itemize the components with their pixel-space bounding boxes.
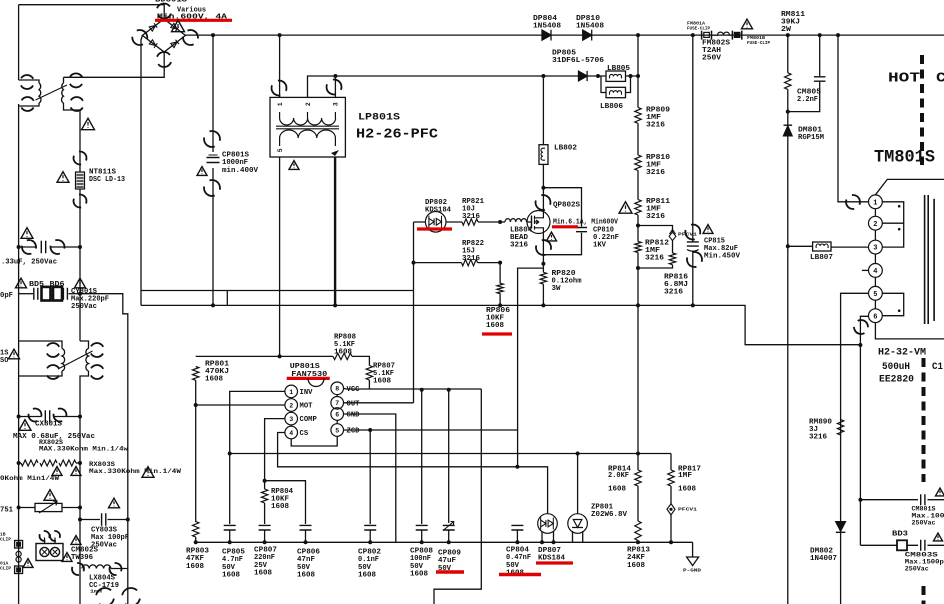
svg-text:1608: 1608 <box>254 570 272 578</box>
junction railB cp815 <box>691 303 695 307</box>
wire x860 bd3 row <box>860 544 944 546</box>
loop mark LP pin3 <box>325 78 342 95</box>
wire CS to DP807 <box>518 467 548 514</box>
svg-text:31DF6L-5706: 31DF6L-5706 <box>552 57 604 65</box>
warning triangle BD5 left <box>16 278 27 288</box>
svg-text:OUT: OUT <box>347 400 361 408</box>
junction rp822 left <box>412 261 416 265</box>
svg-text:8: 8 <box>335 386 339 393</box>
label RP809 1MF 3216 <box>646 107 670 130</box>
svg-text:QP802S: QP802S <box>553 202 581 210</box>
label RM890 3J 3216 <box>809 419 832 442</box>
junction x860 y345 <box>858 343 862 347</box>
loop mark CP801S top <box>202 129 223 150</box>
loop mark tm pin1 <box>845 194 861 210</box>
wire rx802s row <box>19 462 21 464</box>
fuse clip FM801A (left rail) <box>15 566 23 574</box>
svg-text:1N5408: 1N5408 <box>576 22 604 30</box>
wire lb804 to gate <box>527 221 532 223</box>
svg-text:2: 2 <box>305 102 312 106</box>
label RP812 1MF 3216 <box>645 240 669 263</box>
resistor RP804 <box>261 489 267 503</box>
loop mark lx804s left <box>71 562 85 576</box>
wire bd row left <box>19 293 33 295</box>
loop mark cp815 bottom <box>685 250 703 268</box>
label CP801S 1000nF min.400V <box>222 152 259 175</box>
svg-text:3216: 3216 <box>645 255 664 263</box>
svg-text:5: 5 <box>277 148 284 152</box>
label clip 01A <box>0 561 11 572</box>
resistor RP808 <box>333 353 352 359</box>
svg-text:3216: 3216 <box>664 289 683 297</box>
component CM802S TW396 <box>36 538 63 561</box>
capacitor CP809 <box>443 525 455 530</box>
svg-text:4: 4 <box>873 268 877 276</box>
capacitor CP806 <box>300 525 312 530</box>
wire varistor row <box>19 507 80 509</box>
warning triangle bridge <box>172 20 185 31</box>
label CM802S TW396 <box>71 547 98 562</box>
capacitor CP804 <box>511 525 523 530</box>
junction bd row right <box>78 292 82 296</box>
wire CP804 bottom <box>516 530 518 542</box>
junction comp node <box>263 479 267 483</box>
svg-text:HOT: HOT <box>888 71 920 87</box>
loop mark choke2 tr <box>87 340 106 359</box>
loop mark choke1 br <box>67 94 86 113</box>
varistor RV (751) <box>35 501 62 513</box>
junction bus35 x788 <box>786 33 790 37</box>
svg-text:LB807: LB807 <box>810 254 833 262</box>
op-amp pin 1 circle <box>285 385 313 398</box>
capacitor CY803S <box>102 513 106 526</box>
hot-cold divider upper <box>920 55 924 165</box>
svg-text:1608: 1608 <box>271 503 289 511</box>
wire left rail x18 <box>18 5 20 80</box>
svg-text:1608: 1608 <box>297 572 315 580</box>
TM801S pin 2 circle <box>869 216 883 230</box>
junction x638 bus bottom <box>636 540 640 544</box>
LP801S pin numbers <box>277 102 340 152</box>
wire dp807 legs <box>542 532 554 543</box>
loop mark xcap right <box>49 238 67 256</box>
warning triangle rx b <box>71 467 81 476</box>
junction cx left <box>17 415 21 419</box>
wire bd row right <box>69 293 81 295</box>
svg-text:3216: 3216 <box>510 242 528 250</box>
wire ZCD line <box>344 429 518 431</box>
junction inv-zp801 <box>576 452 580 456</box>
svg-text:3216: 3216 <box>646 169 665 177</box>
svg-text:1: 1 <box>277 102 284 106</box>
loop mark choke1 bl <box>18 94 37 113</box>
label CP808 100nF 50V 1608 <box>410 548 433 579</box>
wire cm801s row <box>860 499 944 501</box>
label CP804 0.47nF 50V 1608 <box>506 547 531 578</box>
loop mark choke1 tr <box>66 71 85 90</box>
wire rail B y305.4 <box>141 304 693 306</box>
wire x638 column top <box>637 35 639 107</box>
wire rp822 row <box>414 262 501 264</box>
svg-text:Max.330Kohm Min.1/4W: Max.330Kohm Min.1/4W <box>89 468 181 475</box>
wire rp804 column <box>264 481 266 524</box>
resistor RP801 <box>193 367 199 381</box>
wire x788 top <box>787 35 789 73</box>
op-amp pin 3 circle <box>285 412 318 425</box>
svg-text:CLIP: CLIP <box>0 565 11 571</box>
svg-text:1608: 1608 <box>627 562 645 570</box>
label RP807 5.1KF 1608 <box>373 363 395 386</box>
svg-text:250Vac: 250Vac <box>912 520 936 528</box>
loop arc under FAN7530 <box>308 379 324 387</box>
svg-text:SO: SO <box>0 357 8 365</box>
transformer TM801S outline <box>875 179 944 194</box>
wire rx802s right <box>76 462 80 464</box>
wire LP pin5 down <box>279 157 281 356</box>
svg-text:500uH: 500uH <box>882 361 910 373</box>
resistor RX802S b <box>40 460 57 466</box>
label CP802 0.1nF 50V 1608 <box>358 549 381 580</box>
resistor RP810 <box>635 155 641 171</box>
op-amp pin 5 circle <box>331 424 360 437</box>
junction varistor right <box>78 506 82 510</box>
loop mark LP pin1 <box>270 79 287 96</box>
resistor RP806 <box>497 283 503 294</box>
wire rp803 link <box>195 521 197 524</box>
loop mark choke1 tl <box>17 72 36 91</box>
label CP809 47uF 50V <box>438 550 461 573</box>
LP pin4 arrow mark <box>331 150 339 156</box>
wire RP801-RP803 column <box>195 380 197 522</box>
TM801S pin 5 circle <box>869 286 883 300</box>
capacitor CP807 <box>259 525 271 530</box>
svg-text:1608: 1608 <box>678 485 696 493</box>
wire pin4-5 U link <box>291 436 337 446</box>
mosfet QP802S <box>527 211 550 234</box>
resistor RP816 <box>669 253 675 265</box>
loop mark bridge left <box>130 28 150 48</box>
svg-text:BD801S: BD801S <box>155 0 187 5</box>
wire tm pin5 left <box>841 293 869 604</box>
wire rp816 branch top <box>638 226 673 233</box>
wire cp805 column <box>229 454 231 525</box>
wire x638 lower column <box>637 305 639 542</box>
wire tm pin4 stub <box>862 269 869 271</box>
inductor LB804 <box>505 219 527 222</box>
polarity dot tm 2 <box>898 228 901 231</box>
label clipped 1S SO <box>0 350 8 365</box>
wire rp806 column <box>499 263 501 306</box>
svg-text:C1: C1 <box>932 362 943 373</box>
wire bridge bottom to choke <box>64 52 165 77</box>
diode DM802 1N4007 <box>836 522 846 533</box>
junction dp807 leg a <box>540 540 544 544</box>
red underline RP806 <box>482 332 512 335</box>
wire top feed <box>19 5 165 19</box>
label RP820 0.12ohm 3W <box>552 270 582 293</box>
wire rail A y290.5 <box>141 290 414 292</box>
TM801S pin 4 circle <box>869 264 883 278</box>
junction rp806 bottom <box>498 303 502 307</box>
svg-text:CX801S: CX801S <box>35 421 63 429</box>
wire x543 from bus76 <box>542 76 544 145</box>
op-amp pin 6 circle <box>331 408 360 421</box>
label RP803 47KF 1608 <box>186 548 209 571</box>
junction lb805 right <box>629 74 633 78</box>
junction LP pin3 bus76 <box>333 74 337 78</box>
capacitor CP805 <box>224 525 236 530</box>
fuse clip FM801A <box>702 31 712 40</box>
hot-cold divider lower <box>922 358 926 604</box>
junction bus35 cp815 <box>691 33 695 37</box>
svg-text:250V: 250V <box>702 55 722 63</box>
inductor LX804S <box>82 565 111 569</box>
junction bus76 x543 <box>541 74 545 78</box>
junction rp820 bus <box>541 303 545 307</box>
diode DP804 1N5408 <box>542 30 551 41</box>
wire CP806 bottom <box>305 530 307 542</box>
wire rp809-rp810 <box>637 123 639 155</box>
svg-text:6: 6 <box>335 411 339 418</box>
junction CS-CP804 <box>515 465 519 469</box>
wire rp807 to vcc rail <box>368 380 370 389</box>
svg-text:1608: 1608 <box>410 571 428 579</box>
label CM803S Max.1500p 250Vac <box>905 551 944 573</box>
svg-text:UP801S: UP801S <box>290 363 321 371</box>
red underline Min.600V 4A <box>155 19 232 22</box>
wire left rail x18 lower <box>18 104 20 604</box>
fuse clip FM801B <box>732 31 741 40</box>
op-amp pin 4 circle <box>285 426 309 439</box>
label CM801S Max.100 250Vac <box>912 505 944 527</box>
junction bus35 tm pin1 <box>836 33 840 37</box>
warning triangle rx803s <box>142 467 154 478</box>
label CY803S Max 100pF 250Vac <box>91 527 129 550</box>
label RP813 24KF 1608 <box>627 547 650 570</box>
wire choke to NT811S <box>79 110 81 172</box>
resistor RX802S c <box>59 460 76 466</box>
svg-text:FUSE-CLIP: FUSE-CLIP <box>687 26 710 32</box>
warning triangle left clips <box>23 559 33 568</box>
wire zcd to cp802 <box>369 430 371 524</box>
svg-text:LB805: LB805 <box>607 65 630 73</box>
svg-text:3: 3 <box>333 102 340 106</box>
ferrite bead LB805 <box>606 71 626 81</box>
wire LB807 to x788 <box>788 245 813 247</box>
wire bridge left corner down x141 <box>141 35 142 305</box>
warning triangle LP801S <box>289 161 299 170</box>
net flag PFCV1 upper <box>669 230 676 241</box>
cap CP801S thin top plate <box>209 154 218 156</box>
op-amp pin 2 circle <box>285 399 313 412</box>
resistor RP821 <box>462 219 478 225</box>
junction x788 LB807 <box>786 244 790 248</box>
svg-text:DSC LD-13: DSC LD-13 <box>89 176 125 184</box>
transformer LP801S windings <box>276 112 339 146</box>
label RP801 470KJ 1608 <box>205 361 229 384</box>
junction x788 y111.6 <box>786 110 790 114</box>
label CP810 0.22nF 1KV <box>593 227 619 250</box>
resistor RP812 <box>635 242 641 253</box>
svg-text:.33uF, 250Vac: .33uF, 250Vac <box>1 259 57 267</box>
capacitor CP810 <box>576 228 587 232</box>
label RP822 15J 3216 <box>462 240 484 263</box>
wire source down <box>542 234 544 273</box>
junction x638 y225.5 <box>636 224 640 228</box>
svg-text:FUSE-CLIP: FUSE-CLIP <box>747 40 770 46</box>
junction cy803s left <box>78 518 82 522</box>
junction xcap right <box>78 245 82 249</box>
loop mark NT811S bottom <box>72 193 87 208</box>
loop mark cx801s right <box>52 407 69 424</box>
svg-text:1N4007: 1N4007 <box>810 555 837 563</box>
net flag PFCV1 lower <box>667 504 675 515</box>
svg-text:COMP: COMP <box>300 416 318 424</box>
warning triangle varistor <box>44 490 56 501</box>
polarity dot tm 5 <box>898 309 901 312</box>
warning triangle QP802S right <box>619 202 632 213</box>
svg-text:BD5: BD5 <box>29 281 45 289</box>
capacitor CM805 <box>814 77 826 81</box>
loop mark cm802s a <box>39 530 51 542</box>
wire rp811-rp812 <box>637 215 639 242</box>
wire CP802 bottom <box>369 530 371 542</box>
common-mode choke LX801S <box>19 341 93 381</box>
junction inv-x638 <box>636 452 640 456</box>
svg-text:250Vac: 250Vac <box>71 303 97 311</box>
svg-text:INV: INV <box>300 389 314 397</box>
diode DM801 RGP15M <box>784 125 793 136</box>
red underline FAN7530 <box>287 377 330 380</box>
junction rp822 right <box>498 261 502 265</box>
wire x80 down to choke2 <box>79 247 81 341</box>
capacitor CP802 <box>364 525 376 530</box>
transformer LP801S box <box>270 97 345 157</box>
wire CP805 bottom <box>229 530 231 542</box>
red underline DP807 KDS184 <box>536 561 573 564</box>
wire LP pin4 down (thick) <box>334 157 336 305</box>
wire LP pin1 up <box>279 35 281 97</box>
svg-text:1608: 1608 <box>205 376 223 384</box>
fuse FM802S element <box>712 32 733 35</box>
wire dp805 to lb805 <box>588 75 607 77</box>
label NT811S DSC LD-13 <box>89 169 125 185</box>
svg-text:MOT: MOT <box>300 403 314 411</box>
svg-text:1608: 1608 <box>373 378 391 386</box>
svg-text:BD3: BD3 <box>892 531 909 539</box>
svg-text:1: 1 <box>289 389 293 396</box>
wire lb802 to drain <box>542 164 544 211</box>
junction CP802 bus <box>368 540 372 544</box>
svg-text:CLIP: CLIP <box>0 536 11 542</box>
junction cy803s right <box>126 518 130 522</box>
label RP808 5.1KF 1608 <box>334 334 356 357</box>
warning triangle CX801S <box>19 420 31 431</box>
label RP821 10J 3216 <box>462 198 484 221</box>
warning triangle CY803S <box>109 498 120 508</box>
wire rp810-rp811 <box>637 171 639 200</box>
wire LP pin2 up and over <box>308 76 336 97</box>
wire lx804s right <box>111 568 128 570</box>
svg-text:3216: 3216 <box>462 213 480 221</box>
junction bus35 x638 <box>636 33 640 37</box>
wire gate row <box>414 221 506 223</box>
svg-text:LP801S: LP801S <box>358 112 400 124</box>
wire tm pin6 left link <box>860 316 868 545</box>
svg-text:2: 2 <box>289 402 293 409</box>
warning triangle under choke1 <box>82 118 95 129</box>
junction ZCD dot <box>368 428 372 432</box>
wire lx804s left <box>79 381 81 569</box>
label DP805 31DF6L-5706 <box>552 50 604 66</box>
svg-text:3W: 3W <box>552 285 562 293</box>
wire cx801s row <box>19 416 80 418</box>
wire x227 link <box>226 291 228 306</box>
spark gap BD3 <box>897 540 907 550</box>
svg-text:5: 5 <box>335 427 339 434</box>
junction x638 y268 <box>636 266 640 270</box>
svg-text:2: 2 <box>873 221 877 229</box>
wire MOT line <box>196 404 285 406</box>
warning triangle CM803S <box>934 533 943 541</box>
junction rp817 bus <box>669 540 673 544</box>
junction bus76 x638 <box>636 74 640 78</box>
resistor RP822 <box>462 259 478 265</box>
loop mark tm pin6 <box>851 317 870 336</box>
fuse symbol left rail <box>16 551 21 562</box>
capacitor left of BD5 <box>34 288 38 300</box>
junction bus-CP801S <box>211 33 215 37</box>
svg-text:min.400V: min.400V <box>222 167 259 175</box>
capacitor CY801S <box>63 288 67 300</box>
diode DP805 31DF6L-5706 <box>579 71 588 81</box>
junction railB cp801s <box>211 303 215 307</box>
wire x413 vertical <box>413 222 415 403</box>
junction CP808 bus <box>420 540 424 544</box>
wire rp817 top <box>670 454 672 471</box>
svg-text:MAX.330Kohm Min.1/4w: MAX.330Kohm Min.1/4w <box>39 446 128 453</box>
wire CY801S jog down <box>80 294 128 604</box>
svg-text:1608: 1608 <box>608 485 626 493</box>
capacitor CX801S <box>45 410 49 423</box>
wire CP808 bottom <box>421 530 423 542</box>
wire rp812-down <box>637 253 639 306</box>
svg-text:3216: 3216 <box>646 213 665 221</box>
svg-text:1: 1 <box>873 199 877 207</box>
svg-text:1KV: 1KV <box>593 242 607 250</box>
loop mark choke2 bl <box>43 362 62 381</box>
wire CP809 bottom <box>448 530 450 542</box>
wire tm pin6 bottom exit <box>875 323 944 339</box>
resistor RP811 <box>635 200 641 216</box>
loop mark cp815 top <box>684 223 702 241</box>
label FM801B FUSE-CLIP <box>747 35 770 46</box>
loop mark cm802s b <box>49 530 61 542</box>
wire rp817 bottom <box>670 515 672 542</box>
svg-text:2.2nF: 2.2nF <box>797 96 818 104</box>
svg-text:3216: 3216 <box>809 433 827 441</box>
wire x80 bottom <box>79 569 81 604</box>
wire rp803 bottom <box>195 537 197 542</box>
label clip 1B <box>0 532 11 543</box>
junction x860 y499.7 <box>858 498 862 502</box>
svg-text:3: 3 <box>873 245 877 253</box>
cp809 polarity slash <box>443 521 454 530</box>
junction rx right <box>78 461 82 465</box>
loop mark choke2 br <box>87 362 106 381</box>
junction CP806 bus <box>304 540 308 544</box>
warning triangle NT811S <box>57 172 69 183</box>
